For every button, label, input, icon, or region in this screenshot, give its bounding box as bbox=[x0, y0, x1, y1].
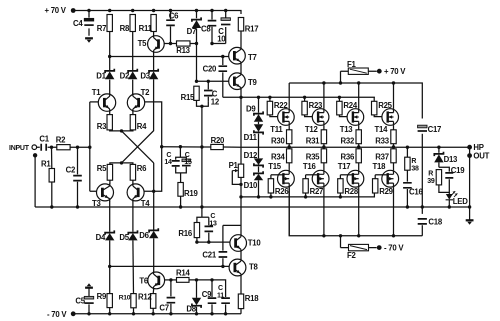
svg-text:R14: R14 bbox=[176, 268, 190, 277]
svg-text:C5: C5 bbox=[75, 296, 85, 305]
mosfet T18 bbox=[382, 170, 399, 187]
capacitor C4 bbox=[88, 11, 90, 36]
wire: R12 to negative rail bbox=[152, 308, 154, 314]
svg-text:D8: D8 bbox=[186, 304, 196, 313]
capacitor C2 bbox=[77, 147, 79, 207]
wire: C17 down across output rail to ground bus bbox=[421, 134, 423, 214]
wire: R3/R4 bottoms joined bbox=[110, 130, 133, 131]
resistor R39 bbox=[436, 170, 441, 185]
transistor T6 bbox=[148, 272, 165, 289]
node: OUT terminal bbox=[467, 153, 472, 158]
node: input junction on base column bbox=[88, 146, 91, 149]
resistor R22 bbox=[269, 97, 271, 101]
wire: T9 emitter down to gate line bbox=[240, 90, 242, 98]
wire: P1 bottom to lower gate line and T10 bbox=[240, 177, 242, 234]
svg-text:D13: D13 bbox=[444, 155, 458, 164]
node: R10 rail junction bbox=[132, 312, 135, 315]
svg-text:R27: R27 bbox=[310, 187, 324, 196]
wire: R35 to T16 bbox=[323, 163, 325, 171]
resistor R36 bbox=[358, 147, 360, 149]
svg-text:R9: R9 bbox=[97, 292, 107, 301]
node: D8 top junction bbox=[195, 278, 198, 281]
capacitor C14 bbox=[172, 161, 180, 166]
svg-text:R4: R4 bbox=[137, 122, 147, 131]
node: D13 junction bbox=[437, 146, 440, 149]
wire: T10 base line bbox=[197, 241, 230, 243]
wire: source of T18 to negative line bbox=[393, 187, 395, 236]
svg-text:R20: R20 bbox=[211, 136, 225, 145]
svg-text:T11: T11 bbox=[270, 125, 283, 134]
svg-text:T9: T9 bbox=[248, 78, 258, 87]
node: drain rail junction T13 bbox=[357, 81, 360, 84]
wire: drain of T12 bbox=[323, 83, 325, 109]
capacitor C13 bbox=[208, 217, 210, 242]
node: R24 gate line junction bbox=[338, 96, 341, 99]
node: negative line junction T18 bbox=[392, 234, 395, 237]
wire: crossover diagonal right-to-left with D3 column bbox=[122, 79, 154, 163]
wire: T7 emitter to T9 collector bbox=[240, 64, 242, 73]
wire: T1 base bbox=[90, 101, 99, 103]
node: R38 junction bbox=[406, 146, 409, 149]
node: junction on ground bus bbox=[200, 205, 203, 208]
wire: F2 leads bbox=[341, 236, 377, 248]
mosfet T12 bbox=[312, 109, 329, 126]
svg-text:R16: R16 bbox=[178, 229, 192, 238]
transistor T7 bbox=[229, 47, 246, 64]
wire: C14/C15 bottoms rejoin bbox=[176, 167, 187, 173]
resistor R20 bbox=[211, 144, 224, 149]
capacitor C11 bbox=[221, 298, 230, 303]
wire: D7 column down to T9 base line bbox=[196, 44, 198, 82]
resistor R26 bbox=[271, 174, 284, 176]
wire: T7 base line from R7/D1 junction bbox=[110, 56, 229, 58]
node: R23 gate line junction bbox=[303, 96, 306, 99]
node: R22 gate line junction bbox=[268, 96, 271, 99]
capacitor C9 bbox=[211, 280, 213, 314]
resistor R10 bbox=[131, 294, 136, 308]
node: R33d junction bbox=[392, 145, 395, 148]
wire: lower negative supply line bbox=[289, 187, 422, 236]
LED bbox=[446, 194, 453, 200]
svg-text:R7: R7 bbox=[97, 24, 106, 33]
svg-text:T7: T7 bbox=[248, 53, 257, 62]
wire: P1 wiper arm bbox=[232, 171, 241, 185]
wire: T3 emitter to D4 bbox=[109, 201, 111, 232]
wire: R25 to gate of T14 bbox=[374, 115, 388, 117]
wire: T9 base line bbox=[197, 80, 229, 82]
node: C7 junction bbox=[169, 278, 172, 281]
wire: R1 leads bbox=[51, 147, 53, 207]
node: F1 rail tap bbox=[339, 81, 342, 84]
svg-text:T13: T13 bbox=[340, 125, 354, 134]
svg-text:D11: D11 bbox=[244, 133, 258, 142]
capacitor C21 bbox=[222, 225, 224, 266]
node: F2 negative line tap bbox=[339, 234, 342, 237]
svg-text:D9: D9 bbox=[246, 105, 256, 114]
diode D5 (zener) bbox=[128, 230, 137, 234]
node: R3/R4 junction bbox=[120, 129, 123, 132]
node: R16 junction on T10 base line bbox=[195, 240, 198, 243]
svg-text:R2: R2 bbox=[56, 136, 66, 145]
diode D13 (zener) bbox=[438, 147, 440, 153]
wire: source of T14 to R33 bbox=[393, 125, 395, 130]
node: LED ground junction bbox=[448, 205, 451, 208]
node: R26 junction bbox=[269, 195, 272, 198]
resistor R9 bbox=[107, 294, 112, 308]
resistor R24 bbox=[338, 97, 340, 101]
svg-text:C: C bbox=[166, 152, 171, 159]
diode D2 (zener) bbox=[128, 69, 137, 73]
resistor R28 bbox=[340, 174, 353, 176]
node: C4 rail junction bbox=[87, 9, 90, 12]
wire: feedback column down to ground bus bbox=[201, 106, 203, 217]
wire: R5 to T3 collector bbox=[109, 180, 111, 184]
svg-text:R31: R31 bbox=[306, 136, 320, 145]
svg-text:D10: D10 bbox=[244, 181, 258, 190]
node: D8 rail junction bbox=[195, 312, 198, 315]
fuse F1 bbox=[348, 68, 368, 74]
node: C12 top junction bbox=[207, 80, 210, 83]
svg-text:C6: C6 bbox=[169, 12, 179, 21]
node: zener chain top junction bbox=[257, 96, 260, 99]
wire: R10 to negative rail bbox=[133, 308, 135, 314]
diode D7 (zener) bbox=[196, 11, 198, 44]
resistor R30 bbox=[287, 130, 292, 144]
resistor R29 bbox=[375, 174, 388, 176]
svg-text:T12: T12 bbox=[305, 125, 319, 134]
svg-text:11: 11 bbox=[217, 293, 224, 300]
node: R15/C12 join bbox=[200, 105, 203, 108]
wire: crossover diagonal left-to-right bbox=[122, 131, 154, 163]
node: R11 rail junction bbox=[152, 9, 155, 12]
svg-text:R13: R13 bbox=[176, 46, 190, 55]
svg-text:D4: D4 bbox=[96, 233, 106, 242]
node: R28 junction bbox=[339, 195, 342, 198]
wire: zener chain to lower gate line bbox=[258, 167, 260, 197]
wire: T4 emitter to D5 bbox=[132, 201, 134, 232]
svg-text:C18: C18 bbox=[428, 217, 442, 226]
svg-text:38: 38 bbox=[411, 166, 419, 173]
capacitor C7 bbox=[170, 280, 172, 314]
node: R7/D1 junction with T7 base line bbox=[108, 55, 111, 58]
svg-text:C9: C9 bbox=[202, 290, 212, 299]
svg-text:R: R bbox=[428, 170, 433, 177]
svg-text:D5: D5 bbox=[119, 233, 129, 242]
wire: R32 to output rail bbox=[358, 144, 360, 147]
mosfet T15 bbox=[278, 170, 295, 187]
node: P1 wiper junction bbox=[239, 183, 242, 186]
svg-text:R26: R26 bbox=[275, 187, 289, 196]
capacitor C5 bbox=[87, 283, 92, 286]
svg-text:C: C bbox=[210, 213, 215, 220]
wire: T8 base line from D4/R9 column bbox=[110, 265, 229, 267]
svg-text:R29: R29 bbox=[379, 187, 393, 196]
node: R32d junction bbox=[357, 145, 360, 148]
resistor R38 bbox=[406, 147, 408, 157]
capacitor C15 bbox=[182, 159, 191, 162]
diode D12 (zener) bbox=[254, 163, 263, 167]
wire: input node to T1/T3 bases bbox=[90, 102, 97, 191]
capacitor C18 bbox=[418, 219, 427, 224]
resistor R3 bbox=[107, 115, 112, 130]
wire: R33 to output rail bbox=[393, 144, 395, 147]
resistor R27 bbox=[306, 174, 319, 176]
svg-text:C16: C16 bbox=[409, 187, 423, 196]
transistor T5 bbox=[148, 36, 165, 53]
svg-text:T16: T16 bbox=[303, 162, 317, 171]
wire: R34 to T15 bbox=[288, 163, 290, 171]
resistor R35 bbox=[323, 147, 325, 149]
node: R5/R6 junction bbox=[120, 161, 123, 164]
wire: C18 to negative line bbox=[421, 225, 423, 236]
node: -70V right terminal bbox=[377, 245, 382, 250]
node: R31d junction bbox=[322, 145, 325, 148]
wire: source of T11 to R30 bbox=[288, 125, 290, 130]
mosfet T14 bbox=[382, 109, 399, 126]
wire: source of T13 to R32 bbox=[358, 125, 360, 130]
node: C17/C18 ground junction bbox=[421, 205, 424, 208]
capacitor C12 bbox=[207, 81, 209, 102]
wire: source of T12 to R31 bbox=[323, 125, 325, 130]
wire: R27 to lower gate line bbox=[305, 193, 307, 197]
resistor R13 bbox=[177, 41, 191, 46]
diode D8 (zener) bbox=[196, 280, 198, 298]
node: C2 ground junction bbox=[76, 205, 79, 208]
wire: HP/OUT column to ground bbox=[469, 147, 471, 220]
svg-text:R5: R5 bbox=[97, 164, 107, 173]
svg-text:10: 10 bbox=[217, 35, 226, 44]
wire: +70 V top supply rail bbox=[76, 11, 242, 15]
resistor R11 bbox=[151, 15, 156, 32]
node: C21 junction on T8 base line bbox=[221, 265, 224, 268]
svg-text:R30: R30 bbox=[271, 136, 285, 145]
wire: R7 to D1 and T1 collector bbox=[109, 32, 111, 95]
svg-text:F1: F1 bbox=[347, 60, 357, 69]
node: +70V terminal dot bbox=[71, 8, 76, 13]
svg-text:R17: R17 bbox=[245, 25, 259, 34]
transistor T3 bbox=[97, 184, 114, 201]
wire: R24 to gate of T13 bbox=[339, 115, 353, 117]
node: R9 rail junction bbox=[108, 312, 111, 315]
node: HP terminal bbox=[467, 145, 472, 150]
capacitor C6 bbox=[170, 11, 172, 44]
svg-text:R28: R28 bbox=[344, 187, 358, 196]
node: input terminal (open circle) bbox=[32, 145, 37, 150]
node: output ground junction bbox=[468, 205, 471, 208]
svg-text:R33: R33 bbox=[375, 136, 389, 145]
wire: D6 to T6 collector bbox=[153, 238, 155, 272]
svg-text:T6: T6 bbox=[139, 276, 149, 285]
node: C8 rail junction bbox=[210, 9, 213, 12]
svg-text:C7: C7 bbox=[159, 304, 168, 313]
node: negative line junction T17 bbox=[357, 234, 360, 237]
svg-text:14: 14 bbox=[164, 159, 172, 166]
resistor R4 bbox=[130, 115, 135, 130]
diode D4 (zener) bbox=[105, 230, 114, 234]
transistor T4 bbox=[127, 184, 144, 201]
node: C6 to R13 line junction bbox=[169, 42, 172, 45]
wire: R16 top to stem bbox=[197, 217, 202, 222]
wire: source of T15 to negative line bbox=[288, 187, 290, 236]
svg-text:39: 39 bbox=[427, 178, 435, 185]
svg-text:T8: T8 bbox=[249, 262, 259, 271]
wire: R39/C19 bottoms to LED bbox=[439, 179, 449, 192]
svg-text:R1: R1 bbox=[41, 160, 51, 169]
capacitor C1 bbox=[37, 146, 52, 148]
resistor R7 bbox=[107, 15, 112, 32]
mosfet T11 bbox=[278, 109, 295, 126]
wire: T4 base line to feedback column bbox=[144, 147, 162, 192]
svg-text:R: R bbox=[411, 158, 416, 165]
wire: source of T17 to negative line bbox=[358, 187, 360, 236]
node: +70V right terminal bbox=[377, 69, 382, 74]
node: R15 top junction bbox=[195, 80, 198, 83]
svg-text:C: C bbox=[185, 152, 190, 159]
svg-text:R3: R3 bbox=[97, 122, 107, 131]
wire: R30 to output rail bbox=[288, 144, 290, 147]
ground (output) bbox=[466, 219, 474, 221]
wire: R8 to D2 and T2 collector bbox=[132, 32, 134, 95]
diode D9 (zener) bbox=[258, 97, 260, 112]
wire: D13 to R39/C19 bbox=[438, 162, 440, 167]
svg-text:R35: R35 bbox=[306, 152, 320, 161]
svg-text:D7: D7 bbox=[187, 27, 196, 36]
svg-text:R12: R12 bbox=[138, 293, 152, 302]
mosfet T16 bbox=[312, 170, 329, 187]
wire: feedback line to R20 bbox=[162, 146, 202, 148]
wire: diagonal column down to D6 bbox=[153, 163, 155, 230]
node: D7 bottom junction bbox=[195, 42, 198, 45]
mosfet T13 bbox=[347, 109, 364, 126]
node: C5 rail junction bbox=[87, 312, 90, 315]
wire: R17 to T7 collector bbox=[240, 31, 242, 47]
resistor R16 bbox=[196, 238, 198, 243]
diode D6 (zener) bbox=[149, 228, 158, 232]
wire: R28 to lower gate line bbox=[339, 193, 341, 197]
svg-text:C2: C2 bbox=[66, 166, 76, 175]
resistor R1 bbox=[49, 169, 54, 183]
wire: upper gate bias line bbox=[223, 96, 375, 98]
wire: D4 to R9 bbox=[109, 240, 111, 293]
node: -70V terminal dot bbox=[71, 311, 76, 316]
wire: -70 V bottom supply rail bbox=[73, 313, 241, 315]
resistor R19 bbox=[178, 183, 183, 197]
svg-text:T5: T5 bbox=[138, 39, 148, 48]
svg-text:R19: R19 bbox=[184, 189, 198, 198]
wire: R23 to gate of T12 bbox=[305, 115, 319, 117]
node: C11 rail junction bbox=[224, 312, 227, 315]
svg-text:T2: T2 bbox=[141, 88, 151, 97]
svg-text:P1: P1 bbox=[229, 161, 239, 170]
wire: R13 to D7 column bbox=[190, 43, 197, 45]
svg-text:R32: R32 bbox=[341, 136, 355, 145]
wire: drain of T11 bbox=[288, 83, 290, 109]
node: C8 bottom junction bbox=[210, 42, 213, 45]
svg-text:R34: R34 bbox=[271, 152, 285, 161]
wire: drain of T13 bbox=[358, 83, 360, 109]
node: zener chain bottom junction bbox=[257, 195, 260, 198]
node: T9 emitter junction bbox=[239, 96, 242, 99]
resistor R17 bbox=[238, 18, 243, 32]
wire: R15/C12 bottoms join bbox=[197, 100, 209, 106]
svg-text:R8: R8 bbox=[120, 24, 130, 33]
resistor R37 bbox=[393, 147, 395, 149]
transistor T9 bbox=[229, 73, 246, 90]
node: D7 rail junction bbox=[195, 9, 198, 12]
wire: T2 emitter to R4 bbox=[132, 111, 134, 115]
node: C7 rail junction bbox=[169, 312, 172, 315]
wire: T5 emitter to D3 bbox=[153, 52, 155, 70]
ground (C4) bbox=[85, 37, 93, 39]
wire: shield down to ground bus bbox=[34, 155, 36, 207]
svg-text:13: 13 bbox=[209, 221, 217, 228]
wire: R19 to ground bus bbox=[180, 196, 182, 207]
svg-text:12: 12 bbox=[211, 97, 220, 106]
wire: R11 to T5 collector bbox=[153, 32, 155, 36]
wire: R36 to T17 bbox=[358, 163, 360, 171]
node: R19 ground junction bbox=[179, 205, 182, 208]
node: T4 base / diagonal column junction bbox=[152, 190, 155, 193]
wire: D5 to R10 bbox=[132, 240, 135, 293]
svg-text:T15: T15 bbox=[268, 162, 282, 171]
wire: R20 leads / output drive line bbox=[202, 146, 241, 148]
wire: drain of T14 bbox=[393, 83, 395, 109]
svg-text:R11: R11 bbox=[139, 24, 153, 33]
node: C1/R2/R1 junction bbox=[50, 146, 53, 149]
capacitor C8 bbox=[211, 11, 213, 44]
wire: T6 emitter to R12 bbox=[152, 289, 155, 294]
resistor R2 bbox=[57, 145, 70, 150]
wire: R26 to lower gate line bbox=[270, 193, 272, 197]
wire: stem to R19 bbox=[180, 173, 182, 183]
svg-text:R6: R6 bbox=[137, 164, 147, 173]
resistor R18 bbox=[238, 294, 243, 309]
wire: output rail to HP bbox=[241, 146, 470, 148]
diode D3 (zener) bbox=[149, 69, 158, 73]
node: drain rail junction T14 bbox=[392, 81, 395, 84]
capacitor C20 bbox=[222, 57, 224, 98]
svg-text:R15: R15 bbox=[181, 93, 195, 102]
wire: R14 to D8/C9/C11 bbox=[189, 280, 226, 297]
svg-text:C21: C21 bbox=[202, 250, 216, 259]
node: C2 junction bbox=[76, 146, 79, 149]
svg-text:INPUT: INPUT bbox=[9, 145, 30, 152]
svg-text:R37: R37 bbox=[375, 152, 389, 161]
wire: T2 base to feedback column bbox=[145, 102, 162, 147]
resistor R15 bbox=[194, 86, 199, 100]
node: C13 junction on T10 base line bbox=[207, 240, 210, 243]
node: C9 rail junction bbox=[210, 312, 213, 315]
capacitor C16 bbox=[406, 170, 408, 207]
wire: R9 to negative rail bbox=[109, 308, 111, 314]
svg-text:D6: D6 bbox=[139, 231, 149, 240]
resistor R14 bbox=[177, 278, 190, 283]
capacitor C17 bbox=[418, 125, 427, 128]
diode D10 (zener) bbox=[254, 171, 263, 175]
svg-text:LED: LED bbox=[453, 197, 468, 206]
wire: R5/R6 top join bbox=[110, 163, 133, 165]
capacitor C19 bbox=[445, 173, 453, 178]
wire: source of T16 to negative line bbox=[323, 187, 325, 236]
wire: upper drain rail from F1 bbox=[289, 83, 422, 119]
svg-text:R36: R36 bbox=[341, 152, 355, 161]
wire: F1 leads bbox=[341, 71, 377, 83]
node: R27 junction bbox=[304, 195, 307, 198]
resistor R32 bbox=[356, 130, 361, 144]
svg-text:C4: C4 bbox=[73, 19, 83, 28]
wire: T10 emitter to T8 collector bbox=[240, 251, 242, 259]
wire: R31 to output rail bbox=[323, 144, 325, 147]
